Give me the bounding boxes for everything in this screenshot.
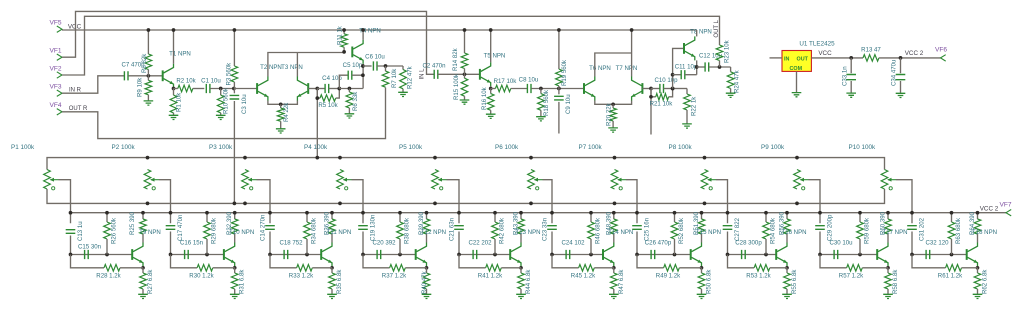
potentiometer P8 xyxy=(701,170,708,190)
resistor R54 xyxy=(765,213,767,222)
wire P7 wiper to band column xyxy=(626,180,637,224)
svg-text:R28 1.2k: R28 1.2k xyxy=(96,273,121,280)
svg-text:C33 1n: C33 1n xyxy=(842,66,849,86)
resistor R29 xyxy=(206,213,208,222)
capacitor C31 xyxy=(907,226,917,230)
svg-text:R15 100k: R15 100k xyxy=(453,73,460,100)
capacitor C1 xyxy=(206,84,210,93)
svg-text:R47 6.8k: R47 6.8k xyxy=(618,269,625,294)
svg-text:P1 100k: P1 100k xyxy=(11,144,35,151)
ground for R16 xyxy=(486,114,496,118)
resistor R38 xyxy=(399,213,401,222)
resistor R11 xyxy=(343,30,345,34)
svg-text:R5 10k: R5 10k xyxy=(318,102,338,109)
node band8 wiper bus xyxy=(726,211,730,215)
capacitor C5 xyxy=(339,75,348,88)
node band3 base xyxy=(268,253,272,257)
svg-text:R44 6.8k: R44 6.8k xyxy=(525,269,532,294)
capacitor C34 xyxy=(900,58,902,73)
resistor R17 xyxy=(491,88,496,90)
ground for R47 xyxy=(609,294,619,298)
svg-text:P8 100k: P8 100k xyxy=(669,144,693,151)
svg-text:C26 470p: C26 470p xyxy=(645,240,672,247)
wire R13 to VF6 xyxy=(879,57,941,59)
svg-text:R7 10k: R7 10k xyxy=(391,68,398,88)
wire band1 emitter xyxy=(142,267,144,268)
svg-text:C24 102: C24 102 xyxy=(561,240,585,247)
svg-text:R57 1.2k: R57 1.2k xyxy=(839,273,864,280)
resistor R21 xyxy=(651,89,656,97)
svg-text:R21 10k: R21 10k xyxy=(650,100,674,107)
ground for R1 xyxy=(169,115,179,119)
wire pot bottom bus xyxy=(47,189,885,203)
connector VF7 xyxy=(1006,210,1011,216)
capacitor C22 xyxy=(459,254,510,256)
svg-text:VCC: VCC xyxy=(68,23,82,30)
capacitor C23 xyxy=(547,226,557,230)
wire P6 wiper to band column xyxy=(543,180,553,224)
capacitor C16 xyxy=(171,254,224,256)
resistor R33 xyxy=(270,255,297,268)
svg-text:R20 22k: R20 22k xyxy=(606,102,613,126)
svg-text:R11 1k: R11 1k xyxy=(337,25,344,45)
svg-text:C18 752: C18 752 xyxy=(279,240,303,247)
svg-text:R33 1.2k: R33 1.2k xyxy=(289,273,314,280)
capacitor C28 xyxy=(728,254,777,256)
node band7 base xyxy=(635,253,639,257)
wire P9 wiper to band column xyxy=(809,180,821,224)
node band1 base xyxy=(69,253,73,257)
wire T3 base node xyxy=(308,88,317,90)
node output OUT L xyxy=(718,65,722,69)
transistor T4 xyxy=(351,47,353,58)
resistor R64 xyxy=(977,213,979,219)
wire T1 emitter node xyxy=(173,87,175,90)
wire VF1 to IN L run xyxy=(62,11,434,74)
wire band9 emitter xyxy=(887,267,889,268)
wire band3 emitter xyxy=(331,267,333,268)
node band5 wiper bus xyxy=(457,211,461,215)
svg-text:R27 6.8k: R27 6.8k xyxy=(147,269,154,294)
resistor R10 xyxy=(220,89,222,96)
wire T7 base node xyxy=(642,88,651,90)
svg-text:R14 82k: R14 82k xyxy=(452,47,459,71)
svg-text:R10 560k: R10 560k xyxy=(223,87,230,114)
potentiometer P4 xyxy=(337,170,344,190)
resistor R51 xyxy=(701,213,703,219)
node R3/C3 xyxy=(232,87,236,91)
svg-text:T12 NPN: T12 NPN xyxy=(421,229,446,236)
resistor R46 xyxy=(590,213,592,222)
wire T8 collector from VCC rail xyxy=(696,30,698,36)
capacitor C33 xyxy=(850,58,852,73)
svg-text:R55 6.8k: R55 6.8k xyxy=(791,269,798,294)
resistor R2 xyxy=(174,88,178,90)
capacitor C2 xyxy=(434,70,438,79)
svg-text:C23 33n: C23 33n xyxy=(542,218,549,241)
node band3 wiper bus xyxy=(268,211,272,215)
wire node to T2 base xyxy=(234,88,257,90)
resistor R48 xyxy=(613,213,615,219)
capacitor C9 xyxy=(558,89,560,95)
ground for U1 COM xyxy=(792,93,802,97)
resistor R13 xyxy=(863,55,879,62)
node C12 tap xyxy=(695,65,699,69)
node band4 base xyxy=(361,253,365,257)
node band7 wiper bus xyxy=(635,211,639,215)
wire band2 emitter xyxy=(234,267,236,268)
capacitor C13 xyxy=(66,230,76,234)
capacitor C3 xyxy=(233,89,235,94)
svg-text:C34 470u: C34 470u xyxy=(891,60,898,86)
wire node to R6 xyxy=(339,88,363,90)
ground for R62 xyxy=(973,294,983,298)
node band5 base xyxy=(457,253,461,257)
svg-text:R41 1.2k: R41 1.2k xyxy=(478,273,503,280)
svg-text:R59 680k: R59 680k xyxy=(864,217,871,244)
svg-text:VCC 2: VCC 2 xyxy=(905,50,924,57)
node band9 base xyxy=(818,253,822,257)
capacitor C15 xyxy=(71,254,133,256)
node band10 wiper bus xyxy=(910,211,914,215)
svg-text:VF7: VF7 xyxy=(999,202,1011,209)
svg-text:R17 10k: R17 10k xyxy=(494,78,518,85)
resistor R45 xyxy=(552,255,579,268)
svg-text:T1 NPN: T1 NPN xyxy=(169,51,191,58)
node R6 xyxy=(348,87,352,91)
svg-text:R19 560k: R19 560k xyxy=(561,59,568,86)
ground for R44 xyxy=(516,294,526,298)
ground for R10 xyxy=(216,115,226,119)
wire P8 wiper to band column xyxy=(716,180,728,224)
svg-text:T15 NPN: T15 NPN xyxy=(696,229,721,236)
capacitor C19 xyxy=(358,226,368,230)
node band6 base xyxy=(550,253,554,257)
svg-text:R37 1.2k: R37 1.2k xyxy=(382,273,407,280)
svg-text:T2 NPN: T2 NPN xyxy=(260,64,282,71)
wire band7 emitter xyxy=(701,267,703,268)
capacitor C32 xyxy=(912,254,967,256)
svg-text:C29 200p: C29 200p xyxy=(827,214,834,241)
wire VCC rail xyxy=(62,29,697,31)
node R20 xyxy=(611,102,615,106)
capacitor C26 xyxy=(637,254,691,256)
transistor T6 xyxy=(583,83,585,94)
svg-text:T18 NPN: T18 NPN xyxy=(972,229,997,236)
svg-text:COM: COM xyxy=(790,66,803,72)
svg-text:R9 10k: R9 10k xyxy=(137,77,144,97)
connector VF4 xyxy=(57,109,62,115)
resistor R9 xyxy=(147,76,149,81)
svg-text:P6 100k: P6 100k xyxy=(495,144,519,151)
resistor R40 xyxy=(426,268,428,273)
resistor R5 xyxy=(317,89,320,99)
wire dangling riser left channel xyxy=(650,89,652,135)
resistor R12 xyxy=(402,66,404,70)
resistor R16 xyxy=(490,89,492,94)
svg-text:VCC 2: VCC 2 xyxy=(980,206,999,213)
ground for R31 xyxy=(230,294,240,298)
resistor R53 xyxy=(728,255,755,268)
connector VF3 xyxy=(57,90,62,96)
resistor R4 xyxy=(280,104,282,108)
wire U1 COM to ground xyxy=(796,71,798,92)
wire T8 emitter column xyxy=(696,60,698,74)
wire feedback riser to pot top rail xyxy=(316,89,318,158)
svg-text:T16 NPN: T16 NPN xyxy=(781,229,806,236)
node T3 base / feedback riser xyxy=(315,87,319,91)
potentiometer P6 xyxy=(528,170,535,190)
node R8/R9/T1 base xyxy=(147,74,151,78)
resistor R6 xyxy=(348,89,350,93)
resistor R42 xyxy=(494,213,496,222)
svg-text:C19 130n: C19 130n xyxy=(370,215,377,241)
capacitor C29 xyxy=(815,226,825,230)
potentiometer P10 xyxy=(881,170,888,190)
svg-text:C32 120: C32 120 xyxy=(925,240,949,247)
ground for R40 xyxy=(422,294,432,298)
wire VF3 to C7 xyxy=(62,76,124,93)
capacitor C27 xyxy=(723,226,733,230)
svg-text:VF3: VF3 xyxy=(49,84,61,91)
svg-text:VF1: VF1 xyxy=(49,48,61,55)
transistor T17 xyxy=(876,249,878,260)
resistor R3 xyxy=(233,30,235,66)
capacitor C18 xyxy=(270,254,321,256)
svg-text:R29 680k: R29 680k xyxy=(211,217,218,244)
transistor T5 xyxy=(479,69,481,80)
transistor T7 xyxy=(641,83,643,94)
svg-text:R38 680k: R38 680k xyxy=(404,217,411,244)
svg-text:R45 1.2k: R45 1.2k xyxy=(571,273,596,280)
potentiometer P1 xyxy=(44,170,51,190)
svg-text:R24 47k: R24 47k xyxy=(734,69,741,93)
potentiometer P9 xyxy=(794,170,801,190)
wire band8 emitter xyxy=(786,267,788,268)
node band2 base xyxy=(169,253,173,257)
svg-text:R34 680k: R34 680k xyxy=(311,217,318,244)
svg-text:OUT L: OUT L xyxy=(714,19,720,37)
transistor T1 xyxy=(162,70,164,81)
capacitor C20 xyxy=(363,254,416,256)
resistor R62 xyxy=(977,268,979,273)
svg-text:R58 6.8k: R58 6.8k xyxy=(892,269,899,294)
wire T2/T3 collectors to T4 base node xyxy=(268,53,298,77)
svg-text:C11 10p: C11 10p xyxy=(675,64,698,71)
resistor R57 xyxy=(820,255,847,268)
resistor R61 xyxy=(912,255,946,268)
svg-text:C10 10p: C10 10p xyxy=(654,77,678,84)
node C33 xyxy=(849,56,853,60)
svg-text:R53 1.2k: R53 1.2k xyxy=(746,273,771,280)
svg-text:C28 300p: C28 300p xyxy=(735,240,762,247)
ground for R18 xyxy=(536,117,546,121)
resistor R20 xyxy=(612,104,614,108)
svg-text:P7 100k: P7 100k xyxy=(579,144,603,151)
resistor R14 xyxy=(464,30,466,53)
capacitor C8 xyxy=(527,84,531,93)
svg-text:C25 16n: C25 16n xyxy=(644,218,651,241)
wire T4 collector to VCC xyxy=(362,30,364,40)
svg-text:R31 6.8k: R31 6.8k xyxy=(239,269,246,294)
transistor T10 xyxy=(223,249,225,260)
wire band6 emitter xyxy=(613,267,615,268)
wire pot top bus xyxy=(47,158,885,170)
ground for R50 xyxy=(697,294,707,298)
transistor T16 xyxy=(775,249,777,260)
wire T5 collector to VCC xyxy=(490,30,492,62)
ic U1 TLE2425 xyxy=(782,51,811,72)
capacitor C7 xyxy=(124,71,128,80)
wire C7 to T1 base xyxy=(128,75,163,77)
resistor R37 xyxy=(363,255,390,268)
resistor R18 xyxy=(540,89,542,94)
resistor R52 xyxy=(674,213,676,222)
svg-text:OUT R: OUT R xyxy=(69,106,88,112)
resistor R22 xyxy=(686,89,688,95)
node R7 top xyxy=(384,64,388,68)
transistor T3 xyxy=(307,83,309,94)
resistor R39 xyxy=(426,213,428,219)
resistor R63 xyxy=(951,213,953,222)
resistor R41 xyxy=(459,255,486,268)
svg-text:R8 82k: R8 82k xyxy=(141,53,148,73)
svg-text:VF2: VF2 xyxy=(49,65,61,72)
transistor T15 xyxy=(690,249,692,260)
ground for R22 xyxy=(682,124,692,128)
resistor R58 xyxy=(887,268,889,273)
node band10 base xyxy=(910,253,914,257)
resistor R50 xyxy=(701,268,703,273)
node R10/C1 xyxy=(219,87,223,91)
capacitor C4 xyxy=(317,88,325,90)
svg-text:VF6: VF6 xyxy=(935,47,947,54)
transistor T14 xyxy=(602,249,604,260)
resistor R44 xyxy=(520,268,522,273)
svg-text:C22 202: C22 202 xyxy=(468,240,492,247)
node T7 base / dangling riser xyxy=(649,87,653,91)
svg-text:P5 100k: P5 100k xyxy=(399,144,423,151)
ground for C33 xyxy=(846,93,856,97)
resistor R28 xyxy=(71,255,105,268)
wire P4 wiper to band column xyxy=(352,180,364,224)
node band8 base xyxy=(726,253,730,257)
svg-text:R25 390: R25 390 xyxy=(129,211,136,235)
svg-text:R52 680k: R52 680k xyxy=(678,217,685,244)
resistor R47 xyxy=(613,268,615,273)
resistor R30 xyxy=(171,255,198,268)
svg-text:C16 15n: C16 15n xyxy=(180,240,203,247)
svg-text:C27 822: C27 822 xyxy=(734,217,741,241)
node band4 wiper bus xyxy=(361,211,365,215)
transistor T13 xyxy=(509,249,511,260)
wire C8 to T6 base xyxy=(531,88,584,90)
svg-text:C6 10u: C6 10u xyxy=(365,54,385,61)
svg-text:R62 6.8k: R62 6.8k xyxy=(982,269,989,294)
svg-text:C15 30n: C15 30n xyxy=(78,244,101,251)
svg-text:P10 100k: P10 100k xyxy=(849,144,876,151)
resistor R60 xyxy=(887,213,889,219)
capacitor C6 xyxy=(363,65,372,67)
wire VF4 OUT R feedback run xyxy=(62,88,386,139)
svg-text:C3 10u: C3 10u xyxy=(241,94,248,114)
wire VF2 to OUT L run xyxy=(62,16,720,75)
transistor T11 xyxy=(320,249,322,260)
svg-text:R16 10k: R16 10k xyxy=(481,86,488,110)
wire P5 wiper to band column xyxy=(447,180,460,224)
svg-text:T5 NPN: T5 NPN xyxy=(484,53,506,60)
ground for R24 xyxy=(726,93,736,97)
svg-text:C30 10u: C30 10u xyxy=(829,240,852,247)
connector VF2 xyxy=(57,72,62,78)
svg-text:T13 NPN: T13 NPN xyxy=(515,229,540,236)
potentiometer P3 xyxy=(242,170,249,190)
ground for R55 xyxy=(782,294,792,298)
node C11 tap xyxy=(671,73,675,77)
wire T6/T7 collectors to VCC xyxy=(595,53,632,77)
svg-text:T9 NPN: T9 NPN xyxy=(139,229,161,236)
svg-text:R22 1k: R22 1k xyxy=(691,96,698,116)
resistor R49 xyxy=(637,255,664,268)
svg-text:C9 10u: C9 10u xyxy=(565,94,572,114)
wire C2 to T5 base xyxy=(438,73,480,75)
capacitor C25 xyxy=(632,226,642,230)
svg-text:T6 NPN: T6 NPN xyxy=(589,65,611,72)
ground for R35 xyxy=(327,294,337,298)
svg-text:VF4: VF4 xyxy=(49,102,61,109)
svg-text:R2 10k: R2 10k xyxy=(176,77,196,84)
transistor T18 xyxy=(966,249,968,260)
svg-text:R1 10k: R1 10k xyxy=(176,92,183,112)
capacitor C10 xyxy=(651,88,660,90)
svg-text:IN: IN xyxy=(784,56,789,62)
svg-text:P3 100k: P3 100k xyxy=(209,144,233,151)
transistor T9 xyxy=(131,249,133,260)
ground for R12 xyxy=(398,92,408,96)
connector VF6 xyxy=(941,55,946,61)
svg-text:VCC: VCC xyxy=(818,50,832,57)
svg-text:T10 NPN: T10 NPN xyxy=(229,229,254,236)
transistor T2 xyxy=(256,83,258,94)
svg-text:R54 680k: R54 680k xyxy=(770,217,777,244)
node R19/C9 xyxy=(557,87,561,91)
svg-text:U1 TLE2425: U1 TLE2425 xyxy=(799,41,835,48)
svg-text:R42 680k: R42 680k xyxy=(499,217,506,244)
svg-text:R50 6.8k: R50 6.8k xyxy=(706,269,713,294)
capacitor C30 xyxy=(820,254,877,256)
resistor R26 xyxy=(106,213,108,222)
wire C1 to node xyxy=(210,88,234,90)
wire P1 wiper to band column xyxy=(59,180,71,224)
ground for R6 xyxy=(345,114,355,118)
svg-text:R49 1.2k: R49 1.2k xyxy=(656,273,681,280)
resistor R19 xyxy=(558,30,560,69)
svg-text:R4 22k: R4 22k xyxy=(283,102,290,122)
svg-text:T11 NPN: T11 NPN xyxy=(327,229,352,236)
svg-text:R12 47k: R12 47k xyxy=(407,65,414,89)
resistor R27 xyxy=(142,268,144,273)
svg-text:C20 392: C20 392 xyxy=(372,240,396,247)
wire T1 collector to VCC xyxy=(173,30,175,64)
wire U1 input stub xyxy=(770,57,783,59)
wire T2/T3 emitter bus xyxy=(268,101,298,105)
resistor R1 xyxy=(173,89,175,96)
resistor R36 xyxy=(331,213,333,219)
svg-text:R30 1.2k: R30 1.2k xyxy=(189,273,214,280)
svg-text:C1 10u: C1 10u xyxy=(201,77,221,84)
wire T8 base riser xyxy=(673,48,684,88)
transistor T8 xyxy=(683,43,685,54)
